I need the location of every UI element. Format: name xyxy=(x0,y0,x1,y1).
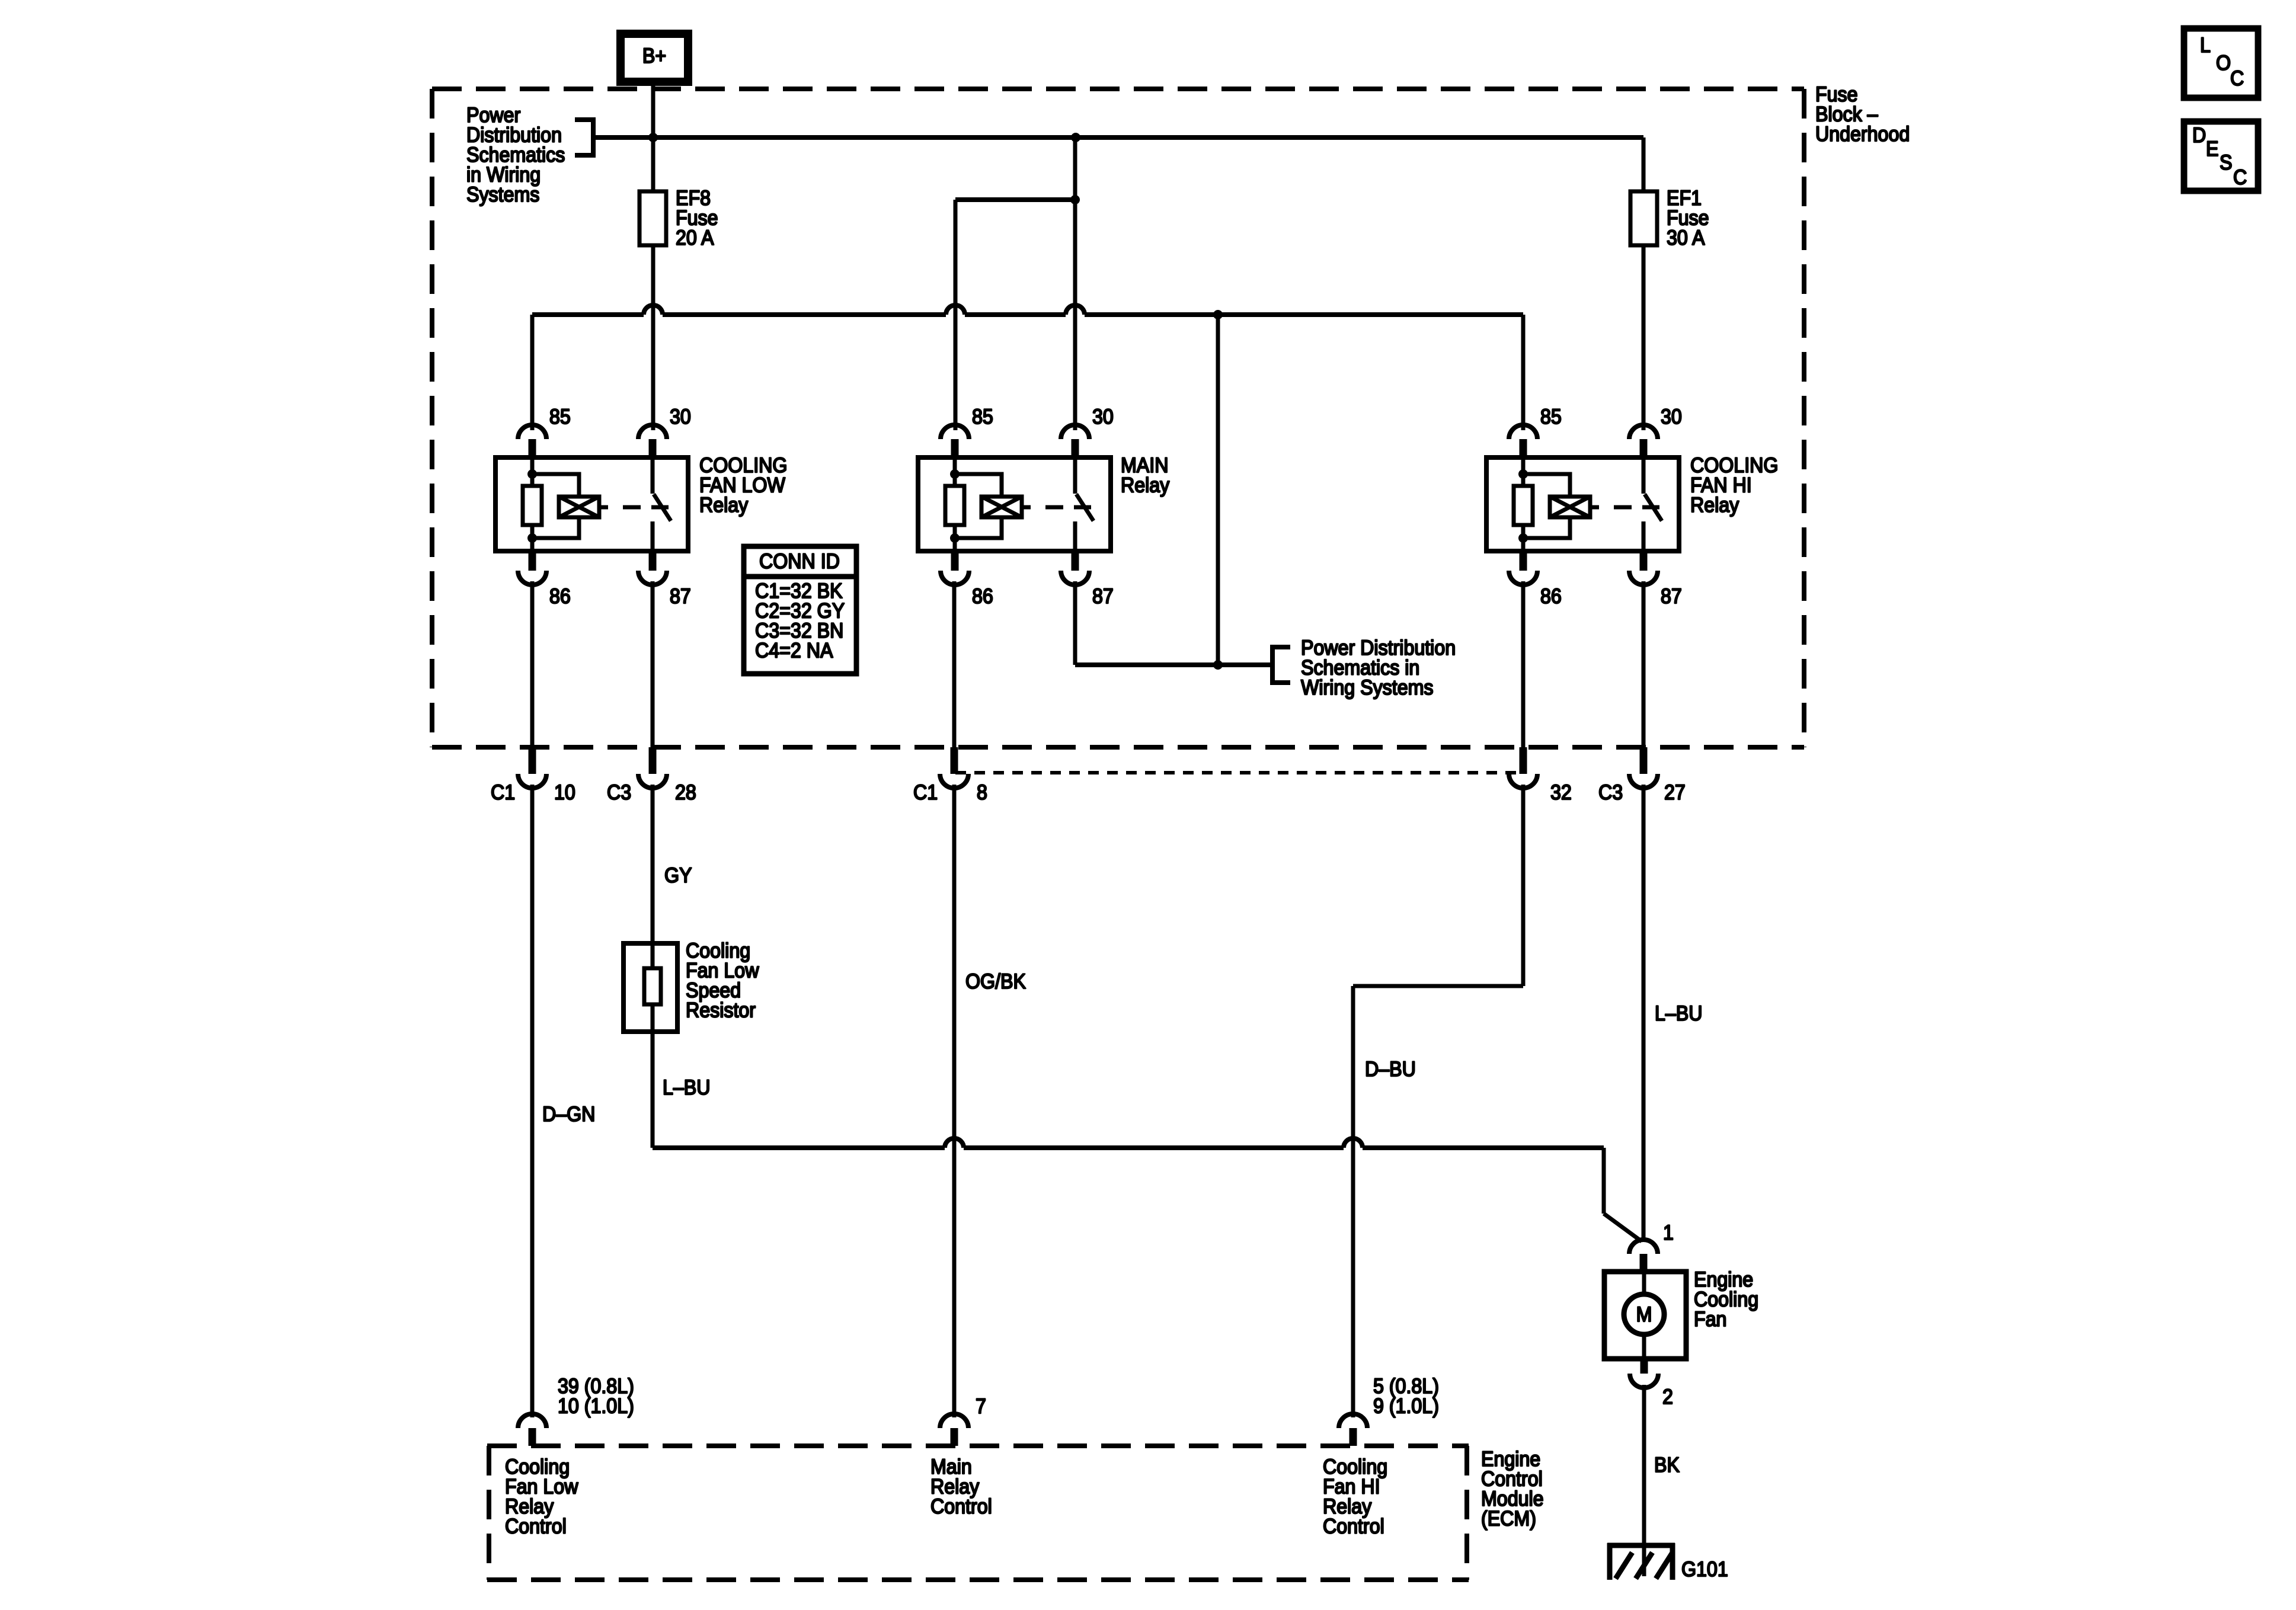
svg-text:M: M xyxy=(1636,1304,1652,1327)
wire GY K1-87 to resistor xyxy=(651,785,655,943)
relay K1 COOLING FAN LOW coil branch wire xyxy=(532,457,579,551)
svg-text:2: 2 xyxy=(1662,1386,1673,1409)
relay K3 COOLING FAN HI pin 30 connector xyxy=(1629,425,1658,457)
connector C3 pin27 (K3-87) xyxy=(1629,581,1658,788)
label fan pin 1 xyxy=(1663,1222,1674,1245)
wire D-BU K3-86 to ECM xyxy=(1353,785,1523,1417)
svg-text:L–BU: L–BU xyxy=(1655,1003,1703,1026)
svg-text:CONN ID: CONN ID xyxy=(759,550,840,574)
label 27 at C3 pin27 (K3-87) xyxy=(1664,782,1686,805)
label fan pin 2 xyxy=(1662,1386,1673,1409)
junction dot A-EF8 xyxy=(648,133,658,142)
label Cooling Fan HI Relay Control xyxy=(1323,1456,1387,1538)
relay K3 COOLING FAN HI coil resistor xyxy=(1514,486,1533,525)
relay K1 COOLING FAN LOW junction dot coil top xyxy=(527,469,537,479)
label C1 at C1 pin10 (K1-86) xyxy=(491,782,515,805)
svg-text:L–BU: L–BU xyxy=(663,1077,711,1100)
LOC reference box xyxy=(2184,28,2258,98)
label EF1 Fuse 30 A xyxy=(1667,187,1709,250)
wire B+ down to EF8 fuse xyxy=(651,82,655,191)
wire feed line A xyxy=(593,135,1643,140)
svg-text:BK: BK xyxy=(1654,1454,1680,1477)
wire L-BU K3-87 to fan xyxy=(1642,785,1646,1241)
label relay K2 MAIN pin 85 xyxy=(972,406,993,429)
power distribution bracket left xyxy=(575,120,593,155)
svg-text:CoolingFan HIRelayControl: CoolingFan HIRelayControl xyxy=(1323,1456,1387,1538)
label ECM pin 7 xyxy=(976,1395,986,1419)
svg-text:87: 87 xyxy=(1661,585,1682,609)
wire BK fan to ground xyxy=(1642,1385,1646,1576)
svg-text:39 (0.8L)10 (1.0L): 39 (0.8L)10 (1.0L) xyxy=(558,1375,634,1418)
ECM pin connector 7 xyxy=(940,1414,968,1446)
svg-text:28: 28 xyxy=(675,782,696,805)
wire EF8 to relay K1 pin 30 xyxy=(651,245,655,430)
relay K2 MAIN junction dot coil top xyxy=(950,469,960,479)
relay K1 COOLING FAN LOW junction dot coil bottom xyxy=(527,533,537,543)
relay K1 COOLING FAN LOW box xyxy=(495,457,688,551)
label C3 at C3 pin28 (K1-87) xyxy=(607,782,631,805)
label ECM pin 39/10 xyxy=(558,1375,634,1418)
label relay K2 MAIN name xyxy=(1121,454,1169,497)
svg-text:C3: C3 xyxy=(1598,782,1623,805)
fan pin 2 connector xyxy=(1630,1359,1658,1388)
DESC reference box xyxy=(2184,121,2258,191)
relay K2 MAIN switch xyxy=(1075,457,1093,551)
ECM pin connector 5/9 xyxy=(1339,1414,1367,1446)
label G101 xyxy=(1681,1558,1728,1582)
svg-text:OG/BK: OG/BK xyxy=(965,971,1026,994)
svg-text:5 (0.8L)9 (1.0L): 5 (0.8L)9 (1.0L) xyxy=(1373,1375,1439,1418)
relay K3 COOLING FAN HI box xyxy=(1486,457,1679,551)
svg-text:30: 30 xyxy=(670,406,691,429)
power distribution bracket right xyxy=(1272,647,1290,683)
label L-BU right xyxy=(1655,1003,1703,1026)
svg-text:32: 32 xyxy=(1550,782,1572,805)
svg-text:30: 30 xyxy=(1092,406,1114,429)
junction dot output xyxy=(1213,660,1223,670)
svg-text:C: C xyxy=(2230,68,2244,91)
fuse block underhood dashed border xyxy=(432,89,1804,747)
relay K3 COOLING FAN HI pin 86 connector xyxy=(1509,551,1537,585)
relay K2 MAIN coil xyxy=(981,497,1022,517)
relay K2 MAIN pin 30 connector xyxy=(1061,425,1089,457)
wire to relay K2 pin 30 xyxy=(1073,137,1077,430)
relay K1 COOLING FAN LOW pin 87 connector xyxy=(638,551,667,585)
svg-text:87: 87 xyxy=(670,585,691,609)
svg-text:C1=32 BKC2=32 GYC3=32 BNC4=2 N: C1=32 BKC2=32 GYC3=32 BNC4=2 NA xyxy=(755,580,845,662)
relay K2 MAIN coil resistor xyxy=(945,486,964,525)
wire bus to relay K1 pin 85 xyxy=(530,315,535,430)
engine cooling fan motor M1 xyxy=(1604,1272,1686,1359)
label ECM pin 5/9 xyxy=(1373,1375,1439,1418)
connector C1 pin8 (K2-86) xyxy=(940,581,968,788)
relay K2 MAIN pin 85 connector xyxy=(941,425,969,457)
B+ power symbol xyxy=(621,34,688,82)
svg-text:7: 7 xyxy=(976,1395,986,1419)
relay K1 COOLING FAN LOW actuation dashed link xyxy=(599,505,669,510)
relay K1 COOLING FAN LOW pin 86 connector xyxy=(518,551,546,585)
wire bus to relay K3 pin 85 xyxy=(1521,315,1526,430)
label relay K3 COOLING FAN HI pin 87 xyxy=(1661,585,1682,609)
fuse EF8 xyxy=(639,191,666,245)
junction dot bus-output xyxy=(1213,310,1223,319)
wire OG/BK K2-86 to ECM xyxy=(952,785,957,1417)
label D-BU xyxy=(1365,1058,1416,1081)
relay K1 COOLING FAN LOW switch xyxy=(653,457,671,551)
label relay K1 COOLING FAN LOW pin 86 xyxy=(549,585,571,609)
junction dot A-K2 xyxy=(1071,133,1080,142)
connector C2 pin32 (K3-86) xyxy=(1509,581,1537,788)
ECM pin connector 39/10 xyxy=(518,1414,546,1446)
relay K3 COOLING FAN HI coil branch wire xyxy=(1523,457,1570,551)
label relay K1 COOLING FAN LOW pin 87 xyxy=(670,585,691,609)
svg-text:C1: C1 xyxy=(491,782,515,805)
label relay K1 COOLING FAN LOW pin 30 xyxy=(670,406,691,429)
relay K3 COOLING FAN HI pin 87 connector xyxy=(1629,551,1658,585)
label Cooling Fan Low Relay Control xyxy=(505,1456,578,1538)
svg-text:86: 86 xyxy=(1540,585,1562,609)
wire L-BU horizontal to fan xyxy=(653,1138,1642,1241)
wire D-GN K1-86 to ECM xyxy=(530,785,535,1417)
junction dot C-B xyxy=(1070,195,1080,204)
label L-BU left xyxy=(663,1077,711,1100)
svg-text:B+: B+ xyxy=(642,45,666,68)
svg-text:S: S xyxy=(2220,152,2232,175)
relay K3 COOLING FAN HI actuation dashed link xyxy=(1590,505,1659,510)
wire K2-87 output xyxy=(1075,581,1272,665)
cooling fan low speed resistor xyxy=(623,943,677,1032)
svg-text:87: 87 xyxy=(1092,585,1114,609)
relay K2 MAIN pin 87 connector xyxy=(1061,551,1089,585)
svg-text:85: 85 xyxy=(1540,406,1562,429)
relay K1 COOLING FAN LOW pin 85 connector xyxy=(518,425,546,457)
relay K3 COOLING FAN HI pin 85 connector xyxy=(1509,425,1537,457)
svg-text:O: O xyxy=(2216,52,2231,75)
label Power Distribution Schematics in Wiring Systems (top left) xyxy=(466,104,565,207)
label relay K1 COOLING FAN LOW name xyxy=(699,454,787,517)
relay K1 COOLING FAN LOW pin 30 connector xyxy=(638,425,667,457)
label D-GN xyxy=(542,1103,595,1126)
label relay K2 MAIN pin 87 xyxy=(1092,585,1114,609)
label Cooling Fan Low Speed Resistor xyxy=(686,940,759,1022)
svg-text:EngineControlModule(ECM): EngineControlModule(ECM) xyxy=(1481,1448,1544,1531)
label GY xyxy=(664,865,692,888)
label Engine Control Module (ECM) xyxy=(1481,1448,1544,1531)
fan pin 1 connector xyxy=(1629,1240,1658,1272)
relay K2 MAIN pin 86 connector xyxy=(941,551,969,585)
wire switched bus xyxy=(532,305,1523,315)
label relay K1 COOLING FAN LOW pin 85 xyxy=(549,406,571,429)
wire EF1 to relay K3 pin 30 xyxy=(1642,245,1646,430)
label 10 at C1 pin10 (K1-86) xyxy=(554,782,575,805)
label 8 at C1 pin8 (K2-86) xyxy=(977,782,987,805)
label C3 at C3 pin27 (K3-87) xyxy=(1598,782,1623,805)
svg-text:C1: C1 xyxy=(913,782,938,805)
label EF8 Fuse 20 A xyxy=(676,187,718,250)
label Engine Cooling Fan xyxy=(1694,1269,1758,1331)
svg-text:D–BU: D–BU xyxy=(1365,1058,1416,1081)
svg-text:27: 27 xyxy=(1664,782,1686,805)
ground G101 xyxy=(1607,1543,1675,1580)
relay K2 MAIN box xyxy=(918,457,1111,551)
connector C3 pin28 (K1-87) xyxy=(638,581,667,788)
svg-text:L: L xyxy=(2200,34,2211,57)
svg-text:D–GN: D–GN xyxy=(542,1103,595,1126)
fuse EF1 xyxy=(1630,191,1657,245)
label relay K3 COOLING FAN HI name xyxy=(1690,454,1778,517)
label OG/BK xyxy=(965,971,1026,994)
wire main relay output down xyxy=(1216,315,1220,665)
label Main Relay Control xyxy=(930,1456,992,1519)
relay K3 COOLING FAN HI switch xyxy=(1643,457,1662,551)
svg-text:8: 8 xyxy=(977,782,987,805)
ECM connector dotted line xyxy=(955,771,1523,774)
relay K2 MAIN coil branch wire xyxy=(955,457,1002,551)
svg-text:MAINRelay: MAINRelay xyxy=(1121,454,1169,497)
relay K3 COOLING FAN HI junction dot coil top xyxy=(1518,469,1528,479)
label relay K3 COOLING FAN HI pin 86 xyxy=(1540,585,1562,609)
svg-text:85: 85 xyxy=(549,406,571,429)
relay K1 COOLING FAN LOW coil xyxy=(559,497,599,517)
ECM dashed box xyxy=(487,1446,1469,1580)
relay K3 COOLING FAN HI junction dot coil bottom xyxy=(1518,533,1528,543)
svg-text:30: 30 xyxy=(1661,406,1682,429)
label relay K3 COOLING FAN HI pin 85 xyxy=(1540,406,1562,429)
label 28 at C3 pin28 (K1-87) xyxy=(675,782,696,805)
svg-text:CoolingFan LowSpeedResistor: CoolingFan LowSpeedResistor xyxy=(686,940,759,1022)
label Power Distribution Schematics in Wiring Systems (middle) xyxy=(1301,637,1456,700)
connector C1 pin10 (K1-86) xyxy=(518,581,546,788)
wire L-BU resistor down xyxy=(651,1032,655,1148)
wire line C to K2 coil xyxy=(955,200,1075,430)
svg-text:86: 86 xyxy=(972,585,993,609)
label BK xyxy=(1654,1454,1680,1477)
svg-text:86: 86 xyxy=(549,585,571,609)
svg-text:E: E xyxy=(2206,138,2218,161)
label 32 at C2 pin32 (K3-86) xyxy=(1550,782,1572,805)
CONN ID table xyxy=(744,546,856,674)
svg-text:GY: GY xyxy=(664,865,692,888)
relay K1 COOLING FAN LOW coil resistor xyxy=(523,486,542,525)
svg-text:1: 1 xyxy=(1663,1222,1674,1245)
wire feed EF1 drop xyxy=(1642,137,1646,191)
relay K2 MAIN actuation dashed link xyxy=(1022,505,1091,510)
label relay K3 COOLING FAN HI pin 30 xyxy=(1661,406,1682,429)
label relay K2 MAIN pin 86 xyxy=(972,585,993,609)
svg-text:10: 10 xyxy=(554,782,575,805)
svg-text:D: D xyxy=(2192,124,2206,148)
svg-text:85: 85 xyxy=(972,406,993,429)
svg-text:C: C xyxy=(2233,167,2247,190)
relay K3 COOLING FAN HI coil xyxy=(1550,497,1590,517)
svg-text:G101: G101 xyxy=(1681,1558,1728,1582)
label Fuse Block - Underhood xyxy=(1815,84,1910,146)
svg-text:C3: C3 xyxy=(607,782,631,805)
relay K2 MAIN junction dot coil bottom xyxy=(950,533,960,543)
label relay K2 MAIN pin 30 xyxy=(1092,406,1114,429)
label C1 at C1 pin8 (K2-86) xyxy=(913,782,938,805)
